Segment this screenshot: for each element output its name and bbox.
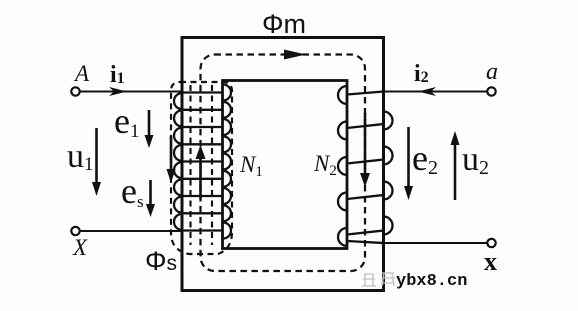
wire x (bottom-right) bbox=[384, 242, 488, 244]
flux down arrow in right limb bbox=[360, 113, 370, 187]
terminal x circle bbox=[487, 239, 495, 247]
leakage flux loop (dashed, Phi-s) bbox=[171, 82, 232, 254]
right arcs bbox=[223, 85, 231, 101]
main flux loop (dashed, Phi-m) bbox=[201, 55, 366, 272]
front wires bbox=[347, 92, 384, 95]
core outer rectangle bbox=[182, 38, 384, 291]
wire X (bottom-left) bbox=[80, 230, 182, 232]
left arcs bbox=[174, 93, 182, 109]
svg-text:x: x bbox=[484, 247, 497, 276]
wire A (top-left) bbox=[80, 90, 182, 92]
leakage down arrow on left side bbox=[167, 136, 176, 183]
right arcs bbox=[384, 112, 393, 130]
terminal X circle bbox=[71, 227, 79, 235]
primary winding N1 (left limb) bbox=[174, 85, 231, 239]
svg-text:X: X bbox=[72, 235, 88, 260]
emf arrow e2 (down) bbox=[404, 127, 413, 200]
emf arrow e1 (down) bbox=[145, 110, 154, 148]
voltage arrow u1 (down) bbox=[92, 128, 101, 196]
left arcs bbox=[338, 86, 347, 104]
svg-text:a: a bbox=[486, 59, 498, 85]
svg-text:Φm: Φm bbox=[262, 9, 306, 39]
flux up arrow in left limb bbox=[196, 145, 206, 199]
front wires bbox=[182, 91, 223, 93]
secondary winding N2 (right limb) bbox=[338, 86, 393, 246]
emf arrow es (down) bbox=[146, 180, 155, 217]
current arrow i2 bbox=[418, 87, 436, 96]
current arrow i1 bbox=[109, 87, 127, 96]
wire a (top-right) bbox=[384, 90, 488, 92]
watermark gray glyphs bbox=[362, 273, 395, 286]
svg-text:A: A bbox=[73, 61, 90, 86]
svg-text:ybx8.cn: ybx8.cn bbox=[396, 272, 467, 291]
leakage flux inner dashed verticals bbox=[189, 85, 191, 245]
flux arrow top (right-pointing) bbox=[284, 50, 306, 60]
terminal a circle bbox=[487, 87, 495, 95]
core window rectangle bbox=[223, 81, 348, 249]
terminal A circle bbox=[71, 87, 79, 95]
voltage arrow u2 (up) bbox=[451, 131, 460, 200]
